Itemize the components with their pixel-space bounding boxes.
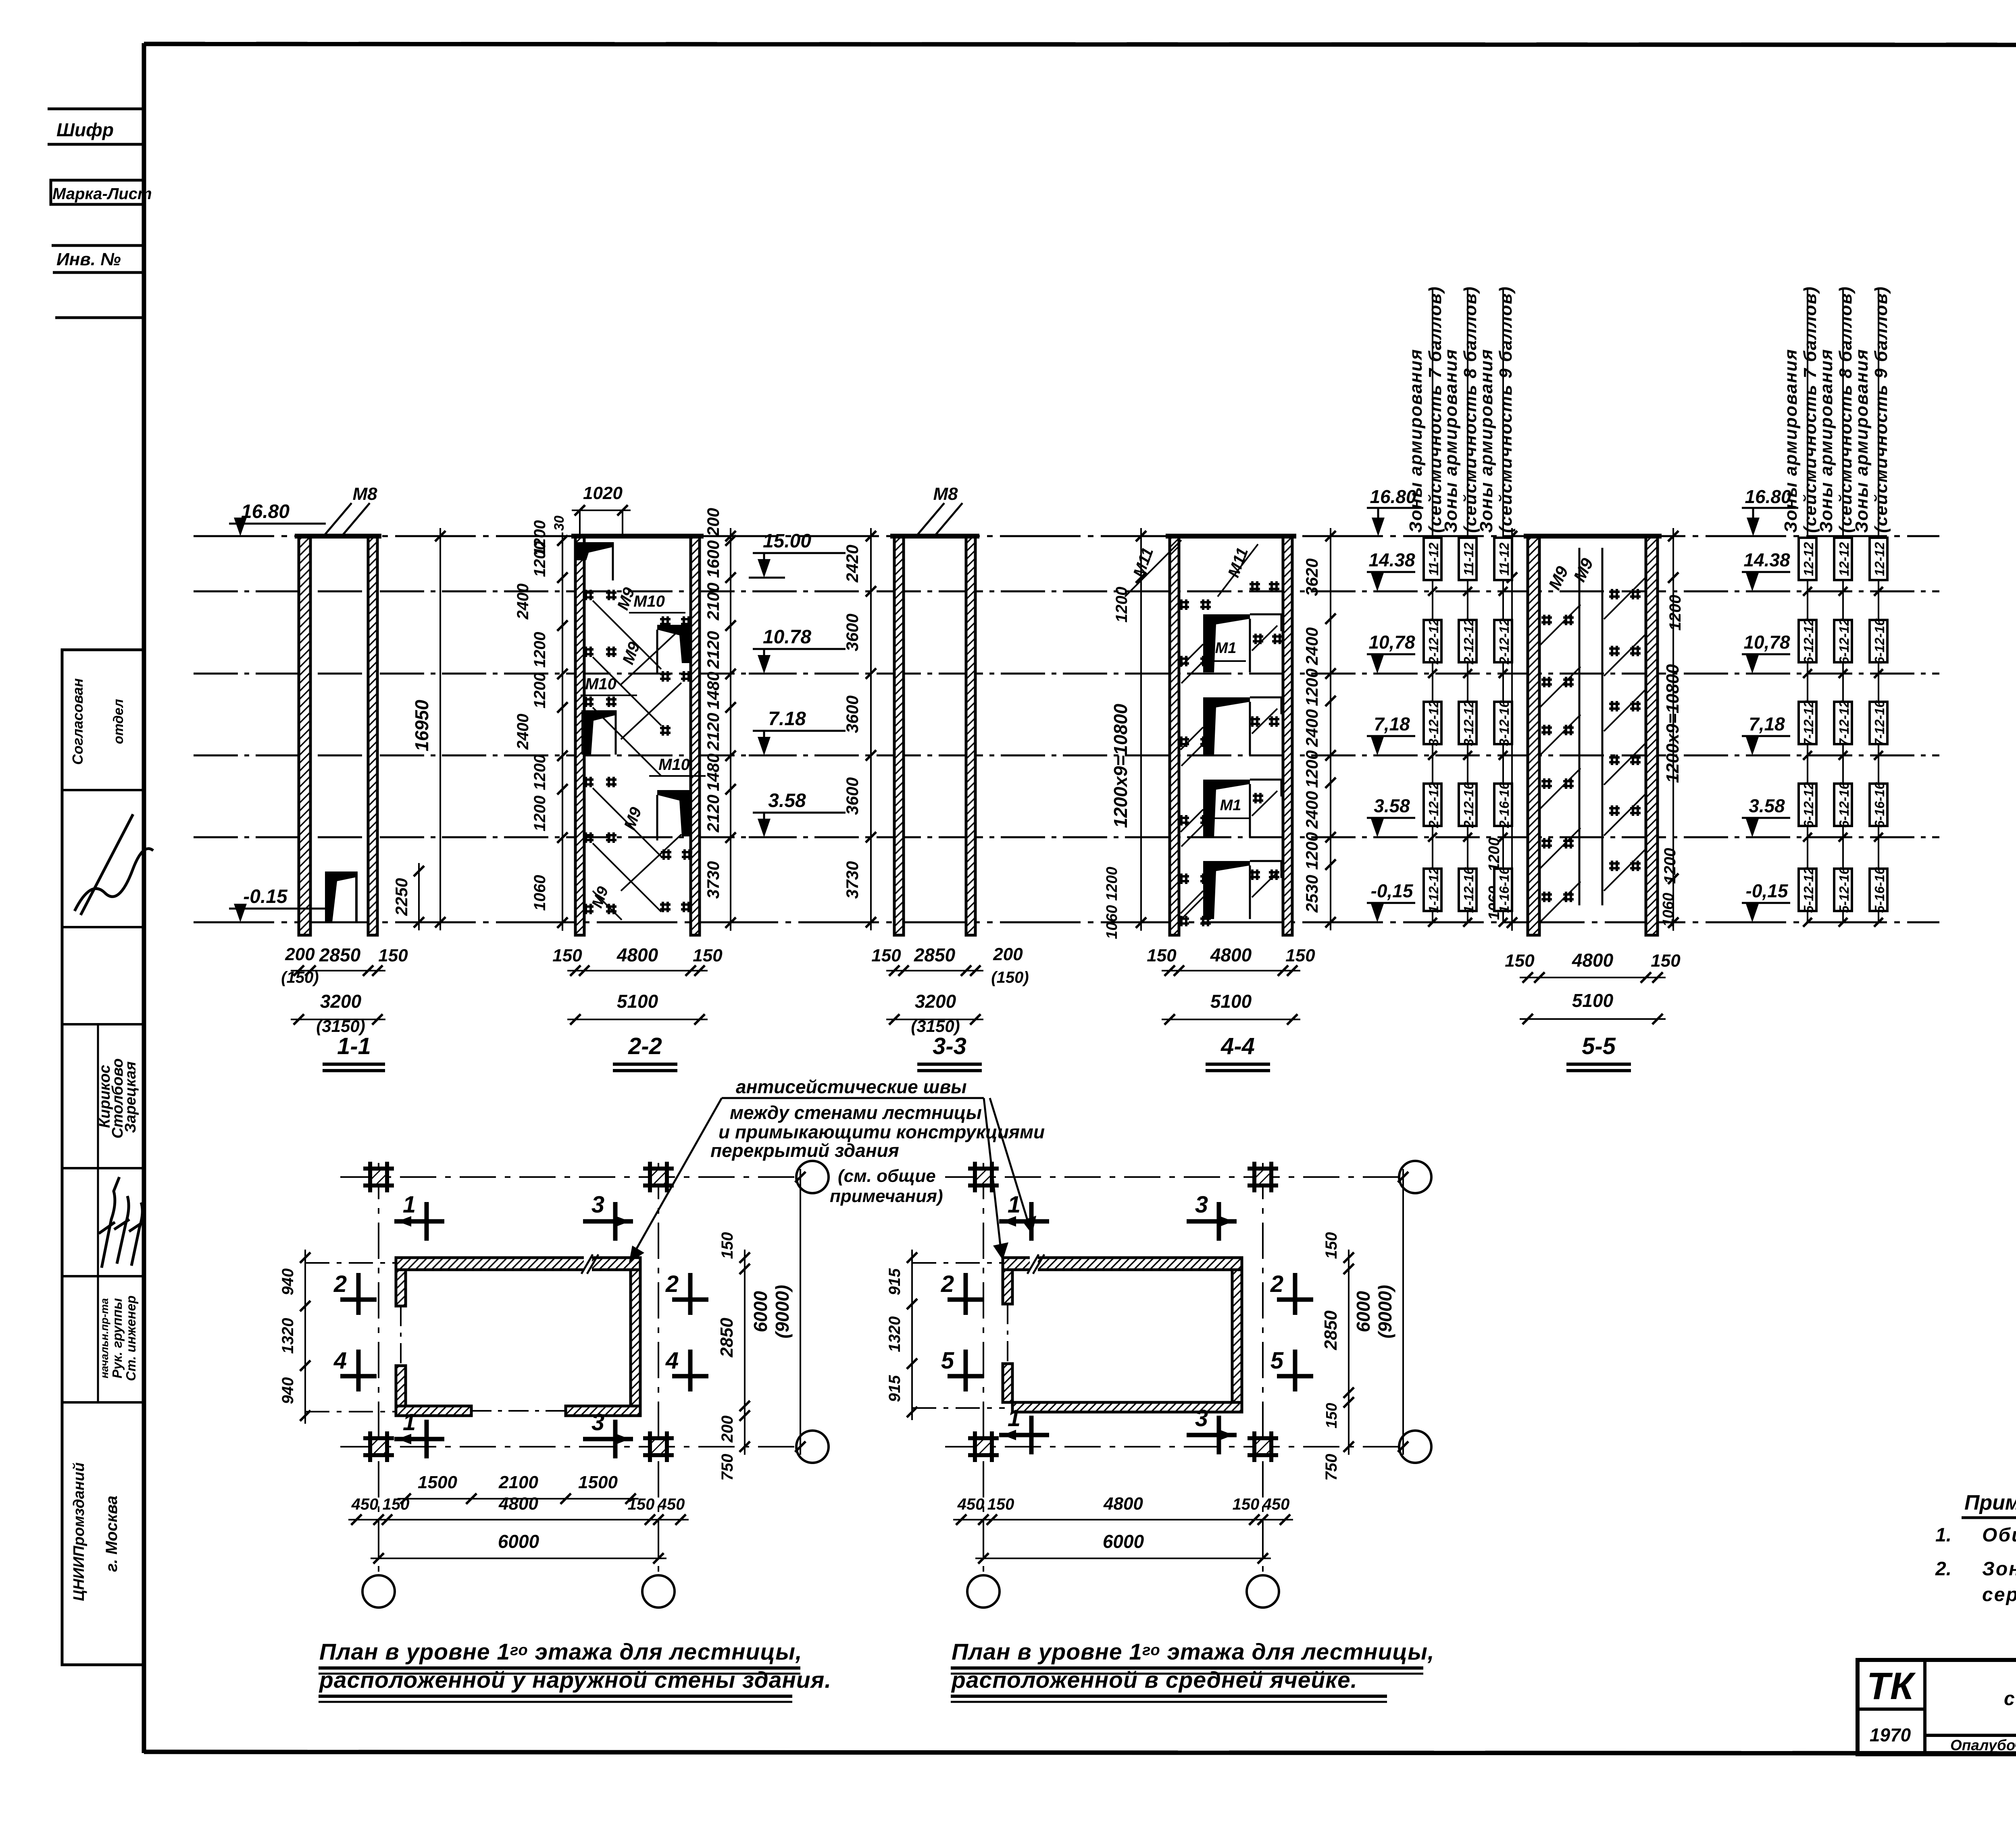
2-2 flight M9 top	[577, 542, 613, 560]
svg-text:1200х9=10800: 1200х9=10800	[1110, 703, 1131, 828]
svg-text:3: 3	[591, 1409, 604, 1435]
svg-text:10.78: 10.78	[763, 626, 811, 648]
svg-text:7-12-12: 7-12-12	[1837, 700, 1851, 746]
svg-text:План в уровне 1го этажа дл: План в уровне 1го этажа для лестницы,	[952, 1639, 1435, 1665]
2-2 rebar anchors	[583, 591, 594, 594]
plan B antiseismic joint in top wall	[1030, 1255, 1038, 1272]
svg-text:2100: 2100	[498, 1473, 538, 1492]
section 1-1 left wall	[299, 536, 310, 935]
svg-text:3600: 3600	[843, 777, 862, 815]
svg-text:2: 2	[333, 1271, 347, 1297]
svg-text:(3150): (3150)	[911, 1017, 960, 1036]
svg-text:150: 150	[1505, 951, 1535, 971]
stamp signature squiggle	[75, 814, 153, 915]
svg-text:1200: 1200	[1661, 848, 1679, 884]
svg-text:6-12-12: 6-12-12	[1801, 782, 1816, 828]
svg-text:2-16-16: 2-16-16	[1497, 782, 1512, 828]
stamp signatures	[99, 1177, 119, 1268]
svg-text:11-12: 11-12	[1461, 542, 1476, 576]
section 2-2 left wall	[575, 536, 584, 935]
svg-text:1.: 1.	[1935, 1525, 1951, 1546]
svg-text:Зоны армирования: Зоны армирования	[1816, 349, 1836, 533]
svg-text:750: 750	[719, 1454, 736, 1481]
svg-text:16950: 16950	[411, 700, 432, 751]
svg-text:5100: 5100	[1572, 990, 1614, 1011]
svg-text:2420: 2420	[843, 545, 862, 582]
svg-text:5-12-16: 5-12-16	[1837, 867, 1851, 913]
svg-text:1: 1	[403, 1192, 416, 1218]
svg-text:примечания): примечания)	[830, 1186, 943, 1206]
dim 2250 (step)	[418, 863, 420, 930]
zone group 1 vertical lines	[1432, 287, 1433, 923]
svg-text:5: 5	[941, 1348, 954, 1374]
plan A grid circles	[796, 1161, 829, 1193]
svg-text:(3150): (3150)	[316, 1017, 365, 1036]
5-5 right dims	[1672, 528, 1674, 931]
svg-text:10,78: 10,78	[1743, 632, 1790, 653]
svg-text:Зоны армирования: Зоны армирования	[1441, 349, 1461, 533]
2-2 flight M10 upper right	[657, 625, 691, 663]
4-4 diagonal leaders	[1181, 661, 1204, 683]
5-5 rebar anchors and flight diagonals	[1541, 616, 1552, 619]
svg-text:2400: 2400	[514, 714, 532, 750]
svg-text:М10: М10	[585, 675, 616, 693]
title block frame	[1858, 1660, 2016, 1754]
svg-text:750: 750	[1322, 1454, 1340, 1481]
4-4 rebar anchors	[1179, 601, 1189, 603]
svg-text:(сейсмичность 9 баллов): (сейсмичность 9 баллов)	[1496, 286, 1516, 533]
svg-text:2250: 2250	[392, 878, 411, 916]
svg-text:3: 3	[591, 1192, 604, 1218]
svg-text:1200: 1200	[1113, 587, 1131, 623]
section 1-1 top cap	[295, 534, 381, 539]
svg-text:1320: 1320	[886, 1317, 904, 1352]
section 3-3 top cap	[890, 534, 979, 539]
svg-text:3600: 3600	[843, 614, 862, 651]
section 1-1 ground step flight	[325, 871, 356, 922]
svg-text:150: 150	[693, 946, 723, 965]
svg-text:30: 30	[552, 516, 567, 531]
plan A cut marks	[394, 1219, 444, 1224]
svg-text:4: 4	[665, 1348, 679, 1374]
svg-text:6000: 6000	[1103, 1531, 1144, 1552]
2-2 left dim ladder	[562, 532, 563, 931]
section 2-2 top cap	[571, 534, 704, 539]
svg-text:11-12: 11-12	[1497, 542, 1512, 576]
4-4 right dim ladder	[1330, 528, 1331, 930]
svg-text:7.18: 7.18	[768, 708, 806, 730]
4-4 left big dim 1200x9=10800	[1140, 528, 1142, 931]
svg-text:3-3: 3-3	[933, 1033, 966, 1059]
svg-text:2-12-12: 2-12-12	[1426, 618, 1441, 664]
svg-text:1060: 1060	[1660, 893, 1677, 927]
svg-text:915: 915	[886, 1375, 904, 1402]
svg-text:Общие примечания даны на: Общие примечания даны на листе 11 .	[1982, 1525, 2016, 1546]
svg-text:перекрытий здания: перекрытий здания	[710, 1140, 899, 1161]
svg-text:1020: 1020	[583, 483, 623, 503]
svg-text:2850: 2850	[717, 1318, 737, 1358]
svg-text:2850: 2850	[914, 944, 956, 965]
svg-text:6-12-16: 6-12-16	[1872, 618, 1887, 664]
plan A columns	[370, 1169, 387, 1185]
svg-text:12-12: 12-12	[1872, 542, 1887, 576]
svg-text:150: 150	[1233, 1495, 1260, 1513]
section 3-3 bottom dims	[886, 970, 983, 971]
plan B walls	[1003, 1258, 1242, 1270]
svg-text:200: 200	[285, 944, 315, 964]
svg-text:(см. общие: (см. общие	[838, 1166, 936, 1186]
svg-text:7,18: 7,18	[1749, 713, 1785, 734]
svg-text:г. Москва: г. Москва	[103, 1495, 121, 1572]
dim 16950 overall height	[439, 528, 441, 930]
svg-text:1200: 1200	[1666, 595, 1684, 631]
svg-text:3.58: 3.58	[768, 790, 806, 811]
sheet frame	[142, 43, 146, 1753]
svg-text:(сейсмичность 9 баллов): (сейсмичность 9 баллов)	[1871, 286, 1891, 533]
svg-text:2530: 2530	[1302, 875, 1321, 913]
svg-text:1200: 1200	[531, 755, 549, 790]
svg-text:М1: М1	[1220, 797, 1241, 814]
section 3-3 right wall	[966, 536, 975, 935]
svg-text:3200: 3200	[915, 991, 956, 1012]
svg-text:2: 2	[665, 1271, 679, 1297]
svg-text:7-12-16: 7-12-16	[1872, 700, 1887, 746]
section 5-5 top cap	[1524, 534, 1662, 539]
2-2 diagonal leaders	[593, 601, 661, 669]
svg-text:1320: 1320	[279, 1318, 297, 1354]
svg-text:5-16-16: 5-16-16	[1872, 867, 1887, 913]
svg-text:200: 200	[704, 508, 723, 537]
svg-text:150: 150	[552, 946, 582, 965]
svg-text:1200: 1200	[1302, 750, 1321, 788]
svg-text:антисейстические швы: антисейстические швы	[736, 1076, 967, 1097]
floor level dash-dot lines	[194, 591, 1939, 593]
svg-text:1200: 1200	[1302, 668, 1321, 706]
section 2-2 right wall	[691, 536, 700, 935]
svg-text:150: 150	[1651, 951, 1681, 971]
svg-text:16.80: 16.80	[1370, 486, 1416, 507]
svg-text:11-12: 11-12	[1426, 542, 1441, 576]
svg-text:4800: 4800	[1572, 950, 1614, 971]
svg-text:150: 150	[871, 946, 901, 965]
svg-text:1200х9=10800: 1200х9=10800	[1663, 664, 1683, 783]
svg-text:1: 1	[1008, 1405, 1020, 1431]
svg-text:Опалубочно-арматурный чертеж м: Опалубочно-арматурный чертеж монолитных …	[1950, 1737, 2016, 1753]
svg-text:3: 3	[1195, 1405, 1208, 1431]
svg-text:5-12-12: 5-12-12	[1801, 867, 1816, 913]
svg-text:4-4: 4-4	[1220, 1033, 1255, 1059]
svg-text:3: 3	[1195, 1192, 1208, 1218]
svg-text:5100: 5100	[1210, 991, 1252, 1012]
section 4-4 right wall	[1283, 536, 1292, 935]
plan A bottom dims	[398, 1498, 639, 1500]
svg-text:начальн.пр-та: начальн.пр-та	[98, 1298, 110, 1378]
svg-text:16.80: 16.80	[1745, 486, 1791, 507]
svg-text:отдел: отдел	[111, 699, 126, 744]
svg-text:(9000): (9000)	[772, 1285, 793, 1339]
2-2 flight M10 mid left	[581, 710, 616, 755]
4-4 flight wedge 2	[1203, 697, 1250, 755]
plan B left dims	[911, 1250, 913, 1420]
svg-text:(9000): (9000)	[1375, 1285, 1395, 1339]
svg-text:1600: 1600	[704, 540, 723, 578]
svg-text:Зоны армирования: Зоны армирования	[1477, 349, 1496, 533]
svg-text:7-12-12: 7-12-12	[1801, 700, 1816, 746]
section 5-5 right wall	[1646, 536, 1658, 935]
svg-text:1-12-12: 1-12-12	[1426, 867, 1441, 913]
svg-text:2850: 2850	[319, 944, 361, 965]
svg-text:1060 1200: 1060 1200	[1104, 867, 1120, 939]
tab Marka-List	[51, 180, 144, 204]
svg-text:16.80: 16.80	[241, 501, 289, 522]
plan A walls	[396, 1258, 640, 1270]
svg-text:Зоны армирования смотреть: Зоны армирования смотреть на листах 1,2,…	[1982, 1558, 2016, 1580]
svg-text:3.58: 3.58	[1374, 795, 1410, 816]
svg-text:-0.15: -0.15	[243, 886, 288, 907]
svg-text:3730: 3730	[704, 861, 723, 898]
svg-text:М10: М10	[633, 593, 665, 610]
2-2 flight M10 lower right	[657, 790, 691, 836]
svg-text:3-12-12: 3-12-12	[1461, 700, 1476, 746]
svg-text:6000: 6000	[1353, 1291, 1374, 1332]
svg-text:(150): (150)	[281, 969, 319, 986]
4-4 flight wedge 3	[1203, 780, 1250, 838]
label M8 with leaders	[323, 503, 352, 537]
svg-text:Зоны армирования: Зоны армирования	[1852, 349, 1872, 533]
svg-text:1-16-16: 1-16-16	[1497, 867, 1512, 913]
svg-text:1060: 1060	[531, 875, 549, 911]
4-4 flight wedge 4	[1203, 861, 1250, 919]
svg-text:915: 915	[886, 1268, 904, 1295]
svg-text:1480: 1480	[704, 672, 723, 709]
svg-text:2120: 2120	[704, 713, 723, 751]
svg-text:1200: 1200	[531, 632, 549, 668]
grid axis lines	[340, 1176, 795, 1178]
svg-text:2120: 2120	[704, 794, 723, 832]
svg-text:5-5: 5-5	[1582, 1033, 1616, 1059]
plan A left dims	[304, 1250, 306, 1424]
svg-text:расположенной у наружной сте: расположенной у наружной стены здания.	[319, 1667, 831, 1693]
svg-text:2-12-12: 2-12-12	[1497, 618, 1512, 664]
svg-text:150: 150	[628, 1495, 655, 1513]
label M8 with leaders (3-3)	[915, 503, 944, 537]
plan A right dims	[744, 1250, 746, 1455]
svg-text:2850: 2850	[1321, 1310, 1341, 1350]
svg-text:200: 200	[993, 944, 1023, 964]
svg-text:1200: 1200	[531, 520, 549, 556]
roof level line 16.80	[194, 535, 1939, 537]
svg-text:между стенами лестницы: между стенами лестницы	[730, 1102, 982, 1123]
svg-text:Шифр: Шифр	[56, 119, 114, 140]
svg-text:450: 450	[351, 1495, 379, 1513]
note leader lines	[722, 1097, 984, 1099]
svg-text:2-12-12: 2-12-12	[1461, 618, 1476, 664]
section 1-1 bottom dims	[291, 970, 385, 971]
svg-text:Марка-Лист: Марка-Лист	[52, 185, 152, 203]
svg-text:150: 150	[1147, 946, 1177, 965]
svg-text:150: 150	[1322, 1232, 1340, 1259]
svg-text:3600: 3600	[843, 695, 862, 733]
svg-text:Ст. инженер: Ст. инженер	[123, 1296, 138, 1381]
dim 1020 top of 2-2	[572, 510, 631, 511]
svg-text:2400: 2400	[1302, 627, 1321, 665]
svg-text:150: 150	[378, 946, 408, 965]
svg-text:Согласован: Согласован	[69, 678, 86, 765]
svg-text:4800: 4800	[498, 1494, 538, 1514]
svg-text:3620: 3620	[1302, 558, 1321, 596]
svg-text:План в уровне 1го этажа д: План в уровне 1го этажа для лестницы,	[319, 1639, 802, 1665]
svg-text:2: 2	[1270, 1271, 1283, 1297]
left stamp table	[62, 650, 143, 1665]
svg-text:ТК: ТК	[1867, 1665, 1916, 1708]
svg-text:-0,15: -0,15	[1746, 880, 1789, 901]
svg-text:2.: 2.	[1935, 1558, 1951, 1580]
svg-text:1200: 1200	[531, 673, 549, 709]
grid axis lines	[945, 1176, 1399, 1178]
svg-text:4800: 4800	[1210, 944, 1252, 965]
svg-text:150: 150	[1285, 946, 1315, 965]
section 5-5 bottom dims	[1520, 977, 1666, 978]
3-3 left dim ladder	[870, 528, 872, 930]
svg-text:3730: 3730	[843, 861, 862, 898]
svg-text:150: 150	[987, 1495, 1014, 1513]
svg-text:-0,15: -0,15	[1371, 880, 1414, 901]
zone group 2 vertical lines	[1807, 287, 1808, 923]
svg-text:2100: 2100	[704, 582, 723, 620]
svg-text:6000: 6000	[498, 1531, 539, 1552]
svg-text:6000: 6000	[750, 1291, 771, 1332]
section 3-3 left wall	[894, 536, 904, 935]
section 5-5 left wall	[1528, 536, 1539, 935]
section 4-4 left wall	[1170, 536, 1179, 935]
tab Shifr	[48, 108, 144, 110]
svg-text:3.58: 3.58	[1749, 795, 1785, 816]
svg-text:1500: 1500	[418, 1473, 457, 1492]
svg-text:150: 150	[383, 1495, 410, 1513]
svg-text:5: 5	[1270, 1348, 1284, 1374]
svg-text:450: 450	[658, 1495, 685, 1513]
svg-text:М10: М10	[658, 756, 690, 774]
svg-text:2400: 2400	[1302, 709, 1321, 747]
svg-text:и примыкающити конструкциями: и примыкающити конструкциями	[719, 1121, 1045, 1142]
svg-text:Инв. №: Инв. №	[56, 250, 121, 269]
svg-text:1: 1	[1008, 1192, 1020, 1218]
plan B columns	[975, 1169, 992, 1185]
plan B bottom dims	[953, 1519, 1293, 1520]
svg-text:15.00: 15.00	[763, 530, 811, 552]
svg-text:2: 2	[941, 1271, 954, 1297]
svg-text:М8: М8	[933, 484, 958, 504]
svg-text:12-12: 12-12	[1837, 542, 1851, 576]
section 4-4 bottom dims	[1162, 970, 1300, 971]
svg-text:940: 940	[279, 1269, 297, 1296]
svg-text:1480: 1480	[704, 753, 723, 791]
svg-text:1200: 1200	[1302, 832, 1321, 869]
5-5 left dim ladder	[1511, 528, 1513, 931]
svg-text:940: 940	[279, 1377, 297, 1404]
svg-text:1970: 1970	[1870, 1724, 1911, 1745]
svg-text:2-12-12: 2-12-12	[1426, 782, 1441, 828]
svg-text:12-12: 12-12	[1801, 542, 1816, 576]
svg-text:Примечания:: Примечания:	[1964, 1491, 2016, 1514]
plan A antiseismic joint in top wall	[584, 1255, 592, 1272]
ground level line -0.15	[194, 921, 1939, 923]
svg-text:6-16-16: 6-16-16	[1872, 782, 1887, 828]
svg-text:6-12-12: 6-12-12	[1837, 618, 1851, 664]
svg-text:150: 150	[719, 1232, 736, 1259]
section 4-4 top cap	[1166, 534, 1296, 539]
svg-text:2-2: 2-2	[628, 1033, 662, 1059]
svg-text:450: 450	[1262, 1495, 1290, 1513]
svg-text:2400: 2400	[514, 584, 532, 620]
5-5 stair flight strip lines	[1579, 548, 1581, 905]
svg-text:200: 200	[719, 1416, 736, 1443]
svg-text:Зарецкая: Зарецкая	[122, 1061, 139, 1133]
svg-text:1-1: 1-1	[337, 1033, 371, 1059]
svg-text:14.38: 14.38	[1368, 549, 1415, 570]
svg-text:3-12-12: 3-12-12	[1426, 700, 1441, 746]
svg-text:с выходом на кровлю (Высота: с выходом на кровлю (Высота этажа 3,6м).	[2004, 1688, 2016, 1710]
svg-text:7,18: 7,18	[1374, 713, 1410, 734]
svg-text:М8: М8	[352, 484, 377, 504]
svg-text:1: 1	[403, 1409, 416, 1435]
section 2-2 bottom dims	[567, 970, 708, 971]
plan B grid circles	[1399, 1161, 1431, 1193]
svg-text:2400: 2400	[1302, 791, 1321, 829]
svg-text:3200: 3200	[320, 991, 362, 1012]
2-2 right dim ladder	[730, 528, 731, 931]
svg-text:ЦНИИПромзданий: ЦНИИПромзданий	[71, 1462, 87, 1601]
svg-text:расположенной в средней яч: расположенной в средней ячейке.	[951, 1667, 1358, 1693]
svg-text:серии ИИС20-9.: серии ИИС20-9.	[1982, 1584, 2016, 1606]
svg-text:5100: 5100	[617, 991, 658, 1012]
svg-text:Рук. группы: Рук. группы	[110, 1298, 125, 1378]
svg-text:4: 4	[333, 1348, 347, 1374]
svg-text:1500: 1500	[578, 1473, 618, 1492]
svg-text:1200: 1200	[1486, 838, 1503, 872]
svg-text:2120: 2120	[704, 631, 723, 669]
svg-text:3-12-16: 3-12-16	[1497, 700, 1512, 746]
svg-text:М1: М1	[1215, 640, 1237, 657]
svg-text:2-12-16: 2-12-16	[1461, 782, 1476, 828]
svg-text:6-12-16: 6-12-16	[1837, 782, 1851, 828]
svg-text:1-12-16: 1-12-16	[1461, 867, 1476, 913]
svg-text:1200: 1200	[531, 796, 549, 832]
section 1-1 right wall	[368, 536, 377, 935]
svg-text:4800: 4800	[1103, 1494, 1143, 1514]
tab Inv No	[52, 244, 144, 247]
svg-text:6-12-12: 6-12-12	[1801, 618, 1816, 664]
svg-text:14.38: 14.38	[1743, 549, 1790, 570]
4-4 flight wedge 1	[1203, 614, 1250, 672]
svg-text:150: 150	[1323, 1403, 1340, 1428]
svg-text:4800: 4800	[616, 944, 658, 965]
svg-text:10,78: 10,78	[1368, 632, 1415, 653]
plan B right dims	[1348, 1250, 1350, 1455]
svg-text:(150): (150)	[991, 969, 1029, 986]
svg-text:450: 450	[957, 1495, 985, 1513]
plan B cut marks	[999, 1219, 1049, 1224]
